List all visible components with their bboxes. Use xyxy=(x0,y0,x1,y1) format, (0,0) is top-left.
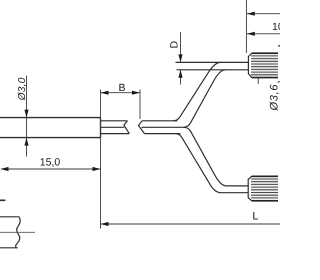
second figure top edge xyxy=(0,216,19,218)
svg-text:B: B xyxy=(119,82,126,94)
twin tube top line (left of break) xyxy=(101,120,128,122)
lower branch tube upper edge xyxy=(184,127,248,186)
arrowheads Ø3,0 xyxy=(24,110,28,146)
second figure centerline xyxy=(0,231,35,233)
jacket end edge xyxy=(100,118,102,138)
tolerance fragment next to Ø3,6 xyxy=(278,81,280,84)
twin tube bottom line (right of break) xyxy=(145,133,181,135)
twin tube middle line (right of break) xyxy=(142,126,186,128)
break edge of right piece xyxy=(139,121,145,134)
upper connector collar xyxy=(248,53,252,78)
twin tube top line (right of break) xyxy=(142,120,177,122)
jacket top edge xyxy=(0,117,101,119)
svg-text:Ø3,0: Ø3,0 xyxy=(17,77,28,101)
dimension line L xyxy=(101,223,281,225)
fragment dash (second figure) xyxy=(0,199,5,201)
upper branch horizontal bottom edge xyxy=(177,69,249,71)
svg-text:D: D xyxy=(169,41,181,49)
arrowheads B xyxy=(101,91,141,95)
upper branch tube lower edge xyxy=(184,70,226,128)
upper branch horizontal top edge xyxy=(176,61,249,63)
dimension line Ø3,0 xyxy=(26,76,28,157)
second figure wavy break line xyxy=(16,217,21,248)
dimension line D xyxy=(180,32,182,85)
mark fragment at right edge xyxy=(278,45,280,47)
svg-text:10,0: 10,0 xyxy=(272,21,280,33)
extension line stub below upper cylinder xyxy=(257,78,259,84)
dimension 10,0 extension and dimension lines (cropped at right) xyxy=(246,0,280,53)
break edge of left piece xyxy=(124,121,129,134)
second figure bottom edge xyxy=(0,247,18,249)
arrowhead L xyxy=(101,222,109,226)
dimension B extension and dimension lines xyxy=(101,90,141,229)
svg-text:L: L xyxy=(252,211,258,223)
lower connector collar xyxy=(248,176,252,201)
twin tube middle line (left of break) xyxy=(101,126,125,128)
arrowheads 15,0 xyxy=(1,167,101,171)
svg-text:15,0: 15,0 xyxy=(40,156,61,168)
lower branch tube lower edge xyxy=(176,134,249,193)
upper connector knurled cylinder body xyxy=(251,53,278,78)
lower connector knurled cylinder body xyxy=(251,176,278,201)
jacket bottom edge xyxy=(0,137,101,139)
upper branch tube upper edge xyxy=(173,62,221,120)
svg-text:Ø3,6: Ø3,6 xyxy=(268,84,280,112)
dimension line 15,0 xyxy=(1,168,101,170)
arrowheads 10,0 xyxy=(247,12,255,36)
twin tube bottom line (left of break) xyxy=(101,133,130,135)
arrowheads D xyxy=(178,54,182,77)
